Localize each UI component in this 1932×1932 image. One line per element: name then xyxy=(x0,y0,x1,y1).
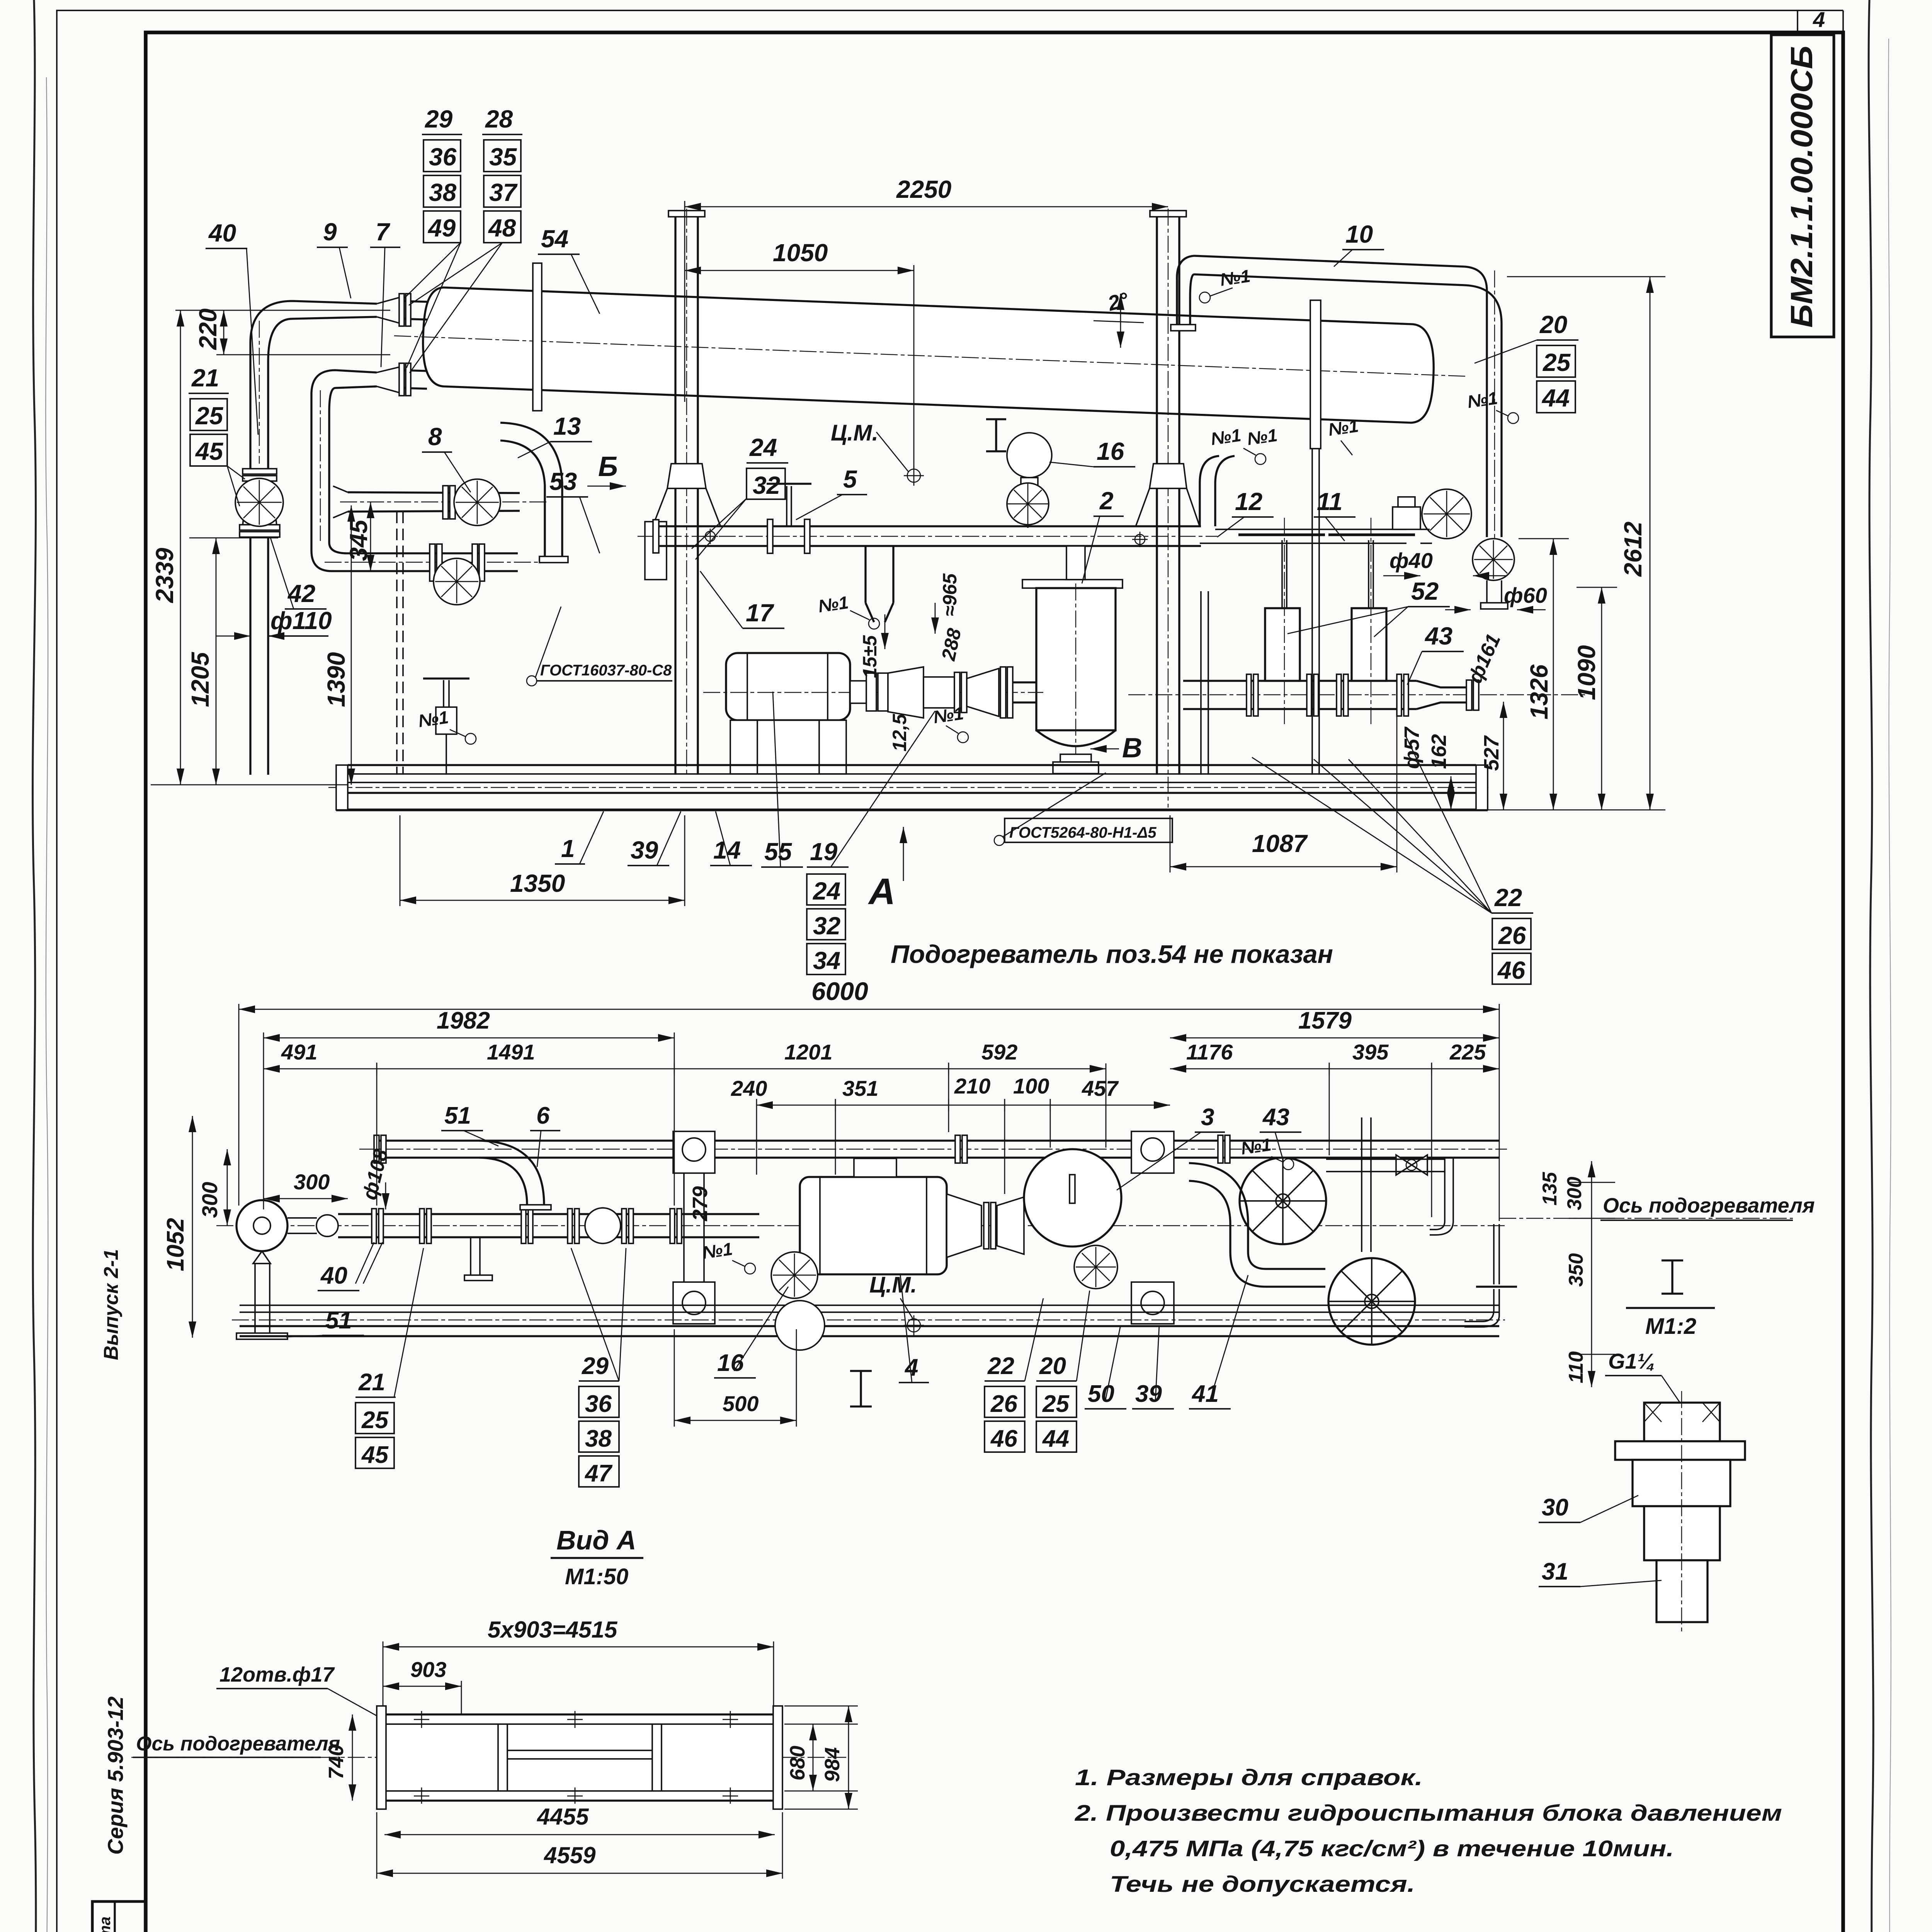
svg-text:38: 38 xyxy=(429,179,457,206)
svg-text:395: 395 xyxy=(1352,1040,1389,1064)
svg-text:300: 300 xyxy=(197,1182,222,1218)
pipe 10 overhead xyxy=(1194,256,1502,537)
small handwheel below strainer xyxy=(1074,1245,1117,1289)
plan main centerline xyxy=(216,1225,1507,1226)
left margin inventory stamp column xyxy=(92,1901,146,1932)
gate valve pos52 right xyxy=(1352,608,1386,681)
section sign I M1:2 xyxy=(1662,1260,1683,1294)
svg-text:22: 22 xyxy=(1494,884,1522,912)
weld note GOST5264 xyxy=(1005,818,1172,842)
svg-text:25: 25 xyxy=(1543,349,1571,376)
scan edge right wavy xyxy=(1869,0,1873,1932)
svg-text:46: 46 xyxy=(1497,956,1526,984)
pump volute circle xyxy=(236,1200,287,1251)
svg-text:2250: 2250 xyxy=(896,175,951,203)
support station squares right xyxy=(1131,1131,1174,1173)
section I plan xyxy=(850,1371,872,1406)
pump shaft xyxy=(287,1217,317,1219)
svg-text:30: 30 xyxy=(1542,1494,1568,1521)
pipe 7 elbow down to lower run xyxy=(311,370,518,571)
pump pos19 xyxy=(888,667,923,718)
svg-text:2339: 2339 xyxy=(151,548,179,603)
svg-text:7: 7 xyxy=(376,218,391,246)
svg-text:39: 39 xyxy=(1135,1381,1162,1407)
skid edges plan xyxy=(240,1304,1499,1306)
svg-text:26: 26 xyxy=(1498,922,1526,949)
svg-text:1087: 1087 xyxy=(1252,830,1308,857)
svg-text:16: 16 xyxy=(717,1350,744,1376)
svg-text:№1: №1 xyxy=(1209,425,1242,449)
lower left nozzle with flanges xyxy=(400,370,427,371)
valve on lower run with handwheel xyxy=(430,544,435,581)
svg-text:31: 31 xyxy=(1542,1558,1568,1585)
union fitting pos30-31 xyxy=(1615,1403,1745,1622)
svg-text:29: 29 xyxy=(425,105,453,133)
svg-text:903: 903 xyxy=(410,1657,446,1682)
gate valve pos52 left xyxy=(1265,608,1300,681)
svg-text:13: 13 xyxy=(553,412,581,440)
svg-text:ф40: ф40 xyxy=(1389,548,1433,573)
svg-text:40: 40 xyxy=(208,219,236,247)
svg-text:52: 52 xyxy=(1411,577,1439,605)
svg-text:1205: 1205 xyxy=(186,651,214,707)
vessel baffle plate right xyxy=(1310,300,1321,449)
svg-text:№1: №1 xyxy=(1219,266,1252,290)
svg-text:4455: 4455 xyxy=(537,1804,589,1830)
hanger block xyxy=(645,522,667,580)
svg-text:36: 36 xyxy=(429,143,457,171)
support plate under right baffle xyxy=(1311,449,1313,775)
svg-text:№1: №1 xyxy=(817,592,850,616)
page number box top right xyxy=(1797,10,1798,32)
svg-text:740: 740 xyxy=(325,1745,348,1779)
dim 1390 xyxy=(351,505,352,785)
pipe 13 curved xyxy=(500,423,562,556)
heater vessel 54 xyxy=(423,287,1434,423)
upper left nozzle with flanges xyxy=(400,301,427,302)
svg-text:6000: 6000 xyxy=(811,977,868,1005)
heater support column left pos14 xyxy=(668,211,705,217)
valve 45 flanges and handwheel xyxy=(243,469,277,474)
svg-text:35: 35 xyxy=(489,143,517,171)
svg-text:592: 592 xyxy=(981,1040,1017,1064)
svg-text:39: 39 xyxy=(631,836,658,864)
svg-text:1326: 1326 xyxy=(1525,664,1553,719)
svg-text:14: 14 xyxy=(713,836,741,864)
svg-text:17: 17 xyxy=(746,599,775,627)
svg-text:29: 29 xyxy=(582,1353,609,1379)
svg-text:110: 110 xyxy=(1565,1351,1587,1383)
svg-text:19: 19 xyxy=(810,838,838,866)
dim 345 xyxy=(370,502,371,571)
svg-text:№1: №1 xyxy=(417,707,450,731)
svg-text:6: 6 xyxy=(536,1102,550,1129)
svg-text:1350: 1350 xyxy=(510,869,565,897)
svg-text:25: 25 xyxy=(361,1407,389,1434)
svg-text:210: 210 xyxy=(954,1074,990,1098)
frame beam structure xyxy=(384,1714,775,1801)
svg-text:24: 24 xyxy=(749,434,777,461)
no1 flags view2 xyxy=(701,1134,1294,1274)
svg-text:491: 491 xyxy=(281,1040,317,1064)
svg-text:16: 16 xyxy=(1097,437,1124,465)
valve with handwheel on pipe 10 xyxy=(1422,489,1471,539)
svg-text:В: В xyxy=(1122,733,1142,764)
svg-text:≈965: ≈965 xyxy=(939,573,961,616)
upper return pipe xyxy=(377,1139,1499,1141)
dim 2339 xyxy=(180,310,181,785)
svg-text:20: 20 xyxy=(1039,1353,1066,1379)
svg-text:Ц.М.: Ц.М. xyxy=(831,420,878,446)
svg-text:15±5: 15±5 xyxy=(859,635,881,678)
svg-text:ф60: ф60 xyxy=(1504,583,1547,607)
svg-text:24: 24 xyxy=(813,877,840,905)
svg-text:М1:2: М1:2 xyxy=(1645,1314,1696,1339)
svg-text:Б: Б xyxy=(598,451,618,482)
right stacked dims xyxy=(1591,1161,1592,1387)
drain assembly right xyxy=(1493,1224,1495,1284)
manifold flange pairs xyxy=(1247,674,1251,716)
svg-text:9: 9 xyxy=(323,218,337,246)
svg-text:1982: 1982 xyxy=(437,1007,490,1034)
svg-text:22: 22 xyxy=(987,1353,1014,1379)
heater support column right pos14 xyxy=(1150,211,1186,217)
elbow 6 down xyxy=(479,1141,544,1205)
heater axis line xyxy=(1499,1218,1793,1219)
doc number box rotated top right xyxy=(1771,35,1834,337)
right manifold pipe xyxy=(1183,680,1417,682)
no1 flags xyxy=(417,266,1519,744)
svg-text:2612: 2612 xyxy=(1619,522,1647,577)
svg-text:38: 38 xyxy=(585,1425,612,1452)
svg-text:279: 279 xyxy=(689,1186,712,1221)
svg-text:№1: №1 xyxy=(1466,388,1499,412)
svg-text:Выпуск 2-1: Выпуск 2-1 xyxy=(100,1249,122,1360)
svg-text:1491: 1491 xyxy=(487,1040,535,1064)
svg-text:32: 32 xyxy=(813,912,840,940)
right vertical dims xyxy=(1451,776,1452,810)
strainer pot circle xyxy=(1024,1149,1121,1247)
svg-text:№1: №1 xyxy=(1240,1134,1272,1158)
svg-text:984: 984 xyxy=(821,1747,844,1782)
svg-text:37: 37 xyxy=(489,179,518,206)
scan edge left wavy xyxy=(33,0,36,1932)
svg-text:№1: №1 xyxy=(1327,416,1360,440)
elbow down to pump suction xyxy=(866,546,893,622)
svg-text:Серия 5.903-12: Серия 5.903-12 xyxy=(103,1696,128,1855)
plate support under axis xyxy=(1361,1117,1362,1252)
svg-text:54: 54 xyxy=(541,225,568,253)
motor plan xyxy=(800,1177,947,1274)
svg-text:12,5: 12,5 xyxy=(889,713,910,752)
pipe from valve to heater axis xyxy=(1326,1158,1445,1160)
svg-text:162: 162 xyxy=(1427,734,1451,769)
svg-text:Подпись и дата: Подпись и дата xyxy=(97,1917,114,1932)
svg-text:51: 51 xyxy=(325,1307,352,1334)
svg-text:53: 53 xyxy=(549,468,577,495)
svg-text:№1: №1 xyxy=(701,1239,734,1263)
svg-text:БМ2.1.1.00.000СБ: БМ2.1.1.00.000СБ xyxy=(1784,46,1819,328)
svg-text:45: 45 xyxy=(195,437,224,465)
electric motor pos55 xyxy=(726,653,850,720)
baseline extension left xyxy=(151,784,348,786)
svg-text:36: 36 xyxy=(585,1391,612,1417)
svg-text:49: 49 xyxy=(427,214,456,242)
instrument circle pos16 xyxy=(1007,433,1052,478)
svg-text:G1¼: G1¼ xyxy=(1608,1349,1655,1373)
svg-text:40: 40 xyxy=(320,1262,347,1289)
svg-text:12отв.ф17: 12отв.ф17 xyxy=(219,1663,335,1686)
svg-text:1050: 1050 xyxy=(773,239,828,267)
svg-text:Ось подогревателя: Ось подогревателя xyxy=(1603,1194,1815,1217)
motor support stand xyxy=(730,720,846,774)
svg-text:500: 500 xyxy=(723,1391,759,1416)
bolt tick marks xyxy=(422,1711,730,1804)
handwheel near motor plan xyxy=(771,1252,818,1298)
coupling cones xyxy=(947,1194,981,1257)
svg-text:1176: 1176 xyxy=(1186,1040,1233,1064)
svg-text:26: 26 xyxy=(990,1391,1017,1417)
big valve handwheel bottom xyxy=(1328,1258,1415,1345)
svg-text:240: 240 xyxy=(731,1076,767,1100)
svg-text:ГОСТ5264-80-Н1-Δ5: ГОСТ5264-80-Н1-Δ5 xyxy=(1009,824,1156,841)
manifold support post xyxy=(1200,591,1202,775)
big valve handwheel top xyxy=(1240,1158,1326,1244)
internal members xyxy=(497,1724,499,1791)
svg-text:46: 46 xyxy=(990,1425,1017,1452)
svg-text:21: 21 xyxy=(358,1369,385,1396)
svg-text:100: 100 xyxy=(1013,1074,1049,1098)
svg-text:ф110: ф110 xyxy=(270,607,332,634)
svg-text:1052: 1052 xyxy=(162,1218,189,1271)
right hook pipe down xyxy=(1444,1158,1446,1221)
svg-text:ГОСТ16037-80-С8: ГОСТ16037-80-С8 xyxy=(540,662,672,679)
section mark I xyxy=(986,419,1006,451)
inline valve circle xyxy=(585,1208,621,1243)
svg-text:Ось подогревателя: Ось подогревателя xyxy=(136,1733,340,1755)
drain tee valve left xyxy=(423,677,469,679)
elbow from strainer to lower valve xyxy=(1189,1163,1248,1252)
svg-text:25: 25 xyxy=(195,402,224,430)
separator vessel pos2 xyxy=(1022,580,1122,588)
svg-text:300: 300 xyxy=(1563,1177,1586,1210)
svg-text:1201: 1201 xyxy=(784,1040,833,1064)
svg-text:№1: №1 xyxy=(1246,425,1279,449)
dim 220 left xyxy=(175,310,390,311)
svg-text:2. Произвести гидроиспытания б: 2. Произвести гидроиспытания блока давле… xyxy=(1075,1801,1782,1826)
svg-text:1090: 1090 xyxy=(1573,645,1600,700)
svg-text:21: 21 xyxy=(191,364,219,392)
svg-text:8: 8 xyxy=(428,423,442,451)
gate valve 5 on pipe xyxy=(767,519,773,553)
svg-text:45: 45 xyxy=(361,1442,389,1468)
svg-text:4559: 4559 xyxy=(544,1842,596,1868)
svg-text:ф57: ф57 xyxy=(1400,726,1423,769)
main pipe run xyxy=(338,1213,759,1215)
vessel baffle plate left xyxy=(533,263,542,411)
svg-text:1: 1 xyxy=(561,835,575,862)
svg-text:44: 44 xyxy=(1541,384,1570,412)
svg-text:12: 12 xyxy=(1235,488,1262,515)
flange pairs on main run xyxy=(372,1209,376,1243)
instrument circle plan xyxy=(775,1301,825,1350)
svg-text:345: 345 xyxy=(345,519,372,561)
pipe 9 with elbow xyxy=(250,301,377,469)
dashed support riser xyxy=(396,512,398,775)
svg-text:10: 10 xyxy=(1345,220,1373,248)
branch stub down xyxy=(470,1237,471,1275)
valve handwheel under instrument xyxy=(1007,483,1049,525)
pump support leg xyxy=(254,1264,256,1333)
svg-text:300: 300 xyxy=(294,1170,330,1194)
svg-text:47: 47 xyxy=(584,1460,612,1487)
small inline valve right top xyxy=(1396,1155,1427,1175)
svg-text:55: 55 xyxy=(764,838,793,866)
svg-text:0,475 МПа (4,75 кгс/см²) в теч: 0,475 МПа (4,75 кгс/см²) в течение 10мин… xyxy=(1110,1836,1674,1861)
svg-text:5: 5 xyxy=(843,465,857,493)
svg-text:М1:50: М1:50 xyxy=(565,1564,628,1589)
svg-text:351: 351 xyxy=(842,1076,878,1100)
svg-text:20: 20 xyxy=(1539,311,1567,338)
svg-text:32: 32 xyxy=(753,471,780,499)
svg-text:Подогреватель поз.54 не показа: Подогреватель поз.54 не показан xyxy=(891,940,1333,968)
svg-text:25: 25 xyxy=(1042,1391,1070,1417)
svg-text:350: 350 xyxy=(1565,1253,1587,1287)
svg-text:51: 51 xyxy=(444,1102,471,1129)
center of mass mark xyxy=(907,469,920,482)
svg-text:№1: №1 xyxy=(932,703,965,727)
pipe 8 with valve xyxy=(348,492,520,493)
svg-text:3: 3 xyxy=(1201,1104,1214,1131)
svg-text:2: 2 xyxy=(1099,487,1114,515)
svg-text:135: 135 xyxy=(1539,1172,1561,1206)
svg-text:34: 34 xyxy=(813,947,840,975)
pipes 12 and 11 horizontal xyxy=(1200,456,1235,526)
svg-text:457: 457 xyxy=(1082,1076,1119,1100)
vessel centerline xyxy=(394,336,1468,376)
svg-text:44: 44 xyxy=(1042,1425,1069,1452)
svg-text:1. Размеры для справок.: 1. Размеры для справок. xyxy=(1075,1765,1423,1790)
svg-text:Ц.М.: Ц.М. xyxy=(869,1272,917,1298)
svg-text:680: 680 xyxy=(786,1746,809,1781)
skid base beams xyxy=(348,764,1476,766)
svg-text:1390: 1390 xyxy=(322,652,350,707)
svg-text:225: 225 xyxy=(1449,1040,1486,1064)
dim 1205 xyxy=(189,537,278,539)
svg-text:48: 48 xyxy=(488,214,516,242)
svg-text:527: 527 xyxy=(1480,735,1503,771)
svg-text:1579: 1579 xyxy=(1298,1007,1352,1034)
long upper horizontal pipe xyxy=(653,525,1201,527)
svg-text:28: 28 xyxy=(485,105,513,133)
support station squares left xyxy=(673,1131,715,1173)
small relief tee on pipe 11 xyxy=(1393,507,1420,529)
svg-text:43: 43 xyxy=(1262,1104,1289,1131)
svg-text:Течь не допускается.: Течь не допускается. xyxy=(1110,1872,1415,1897)
drop pipe below valve 45 xyxy=(249,537,251,775)
svg-text:А: А xyxy=(868,871,895,912)
svg-text:4: 4 xyxy=(1813,7,1825,32)
svg-text:Вид А: Вид А xyxy=(556,1525,636,1555)
svg-text:220: 220 xyxy=(194,308,222,350)
svg-text:43: 43 xyxy=(1424,622,1452,650)
svg-text:11: 11 xyxy=(1317,488,1342,515)
svg-text:50: 50 xyxy=(1088,1381,1114,1407)
svg-text:5х903=4515: 5х903=4515 xyxy=(488,1617,618,1643)
